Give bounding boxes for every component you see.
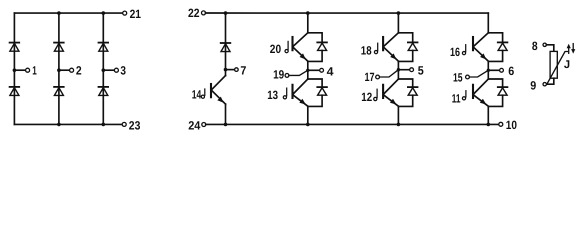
label terminal 23 — [129, 118, 141, 132]
label terminal 2 — [76, 63, 82, 77]
wire phase W leg top — [487, 13, 489, 33]
svg-text:20: 20 — [270, 42, 282, 56]
terminal 9 (thermistor) — [543, 83, 546, 86]
svg-text:22: 22 — [188, 6, 200, 20]
terminal 11 (gate T6) — [462, 91, 466, 100]
svg-text:21: 21 — [130, 7, 142, 21]
junction top rail / phase leg V — [397, 11, 401, 15]
transistor T7 (brake IGBT) — [211, 76, 226, 105]
label terminal 16 — [450, 45, 460, 59]
diode D7 (brake) — [221, 43, 231, 52]
label J (theta) — [564, 59, 570, 71]
terminal 24 (inverter DC-) — [202, 123, 206, 127]
terminal 18 (gate T2) — [374, 43, 377, 54]
label terminal 5 — [418, 63, 424, 77]
terminal 20 (gate T1) — [285, 41, 288, 52]
wire inverter top rail (node 22) — [205, 12, 488, 14]
label terminal 22 — [188, 6, 200, 20]
terminal 12 (gate T5) — [374, 89, 377, 100]
wire diode branch lower corner (phase U bottom) — [308, 95, 322, 106]
transistor T1 (phase U top IGBT) — [293, 33, 308, 61]
diode D8 (phase U top freewheel) — [317, 42, 327, 50]
svg-text:9: 9 — [530, 79, 536, 93]
terminal 2 (AC input) — [57, 68, 73, 72]
label terminal 7 — [240, 63, 246, 77]
transistor T3 (phase W top IGBT) — [473, 33, 488, 61]
terminal 22 (inverter DC+) — [202, 11, 206, 15]
label terminal 9 — [530, 79, 536, 93]
wire thermistor top — [546, 45, 554, 52]
terminal 17 (aux emitter) — [376, 75, 380, 79]
junction top rail / leg 3 — [102, 11, 106, 15]
label terminal 12 — [361, 90, 372, 104]
terminal 13 (gate T4) — [283, 88, 286, 99]
svg-text:15: 15 — [453, 71, 463, 85]
junction top rail / leg 2 — [57, 11, 61, 15]
wire inverter bottom rail (node 24/10) — [206, 123, 499, 125]
wire aux emitter 19 — [289, 70, 308, 75]
label terminal 8 — [532, 39, 538, 53]
wire phase U leg bottom — [307, 106, 309, 124]
svg-text:13: 13 — [267, 88, 278, 102]
wire diode branch upper corner (phase W top) — [488, 33, 502, 43]
svg-text:23: 23 — [129, 118, 141, 132]
wire diode branch upper corner (phase W bottom) — [488, 79, 502, 87]
svg-text:5: 5 — [418, 63, 424, 77]
svg-text:2: 2 — [76, 63, 82, 77]
svg-text:7: 7 — [240, 63, 246, 77]
wire phase U leg top — [307, 13, 309, 33]
terminal 8 (thermistor) — [543, 43, 546, 46]
wire phase V leg bottom — [397, 106, 399, 124]
terminal 21 (rectifier DC+) — [123, 11, 127, 15]
wire aux emitter 17 — [380, 70, 399, 77]
wire diode branch lower corner (phase U top) — [308, 50, 322, 61]
diode D6 (rectifier bottom, leg 3) — [99, 87, 109, 96]
diode D10 (phase W top freewheel) — [498, 42, 508, 50]
node 7 junction — [224, 68, 228, 72]
svg-text:14: 14 — [192, 87, 202, 101]
wire rectifier leg 3 — [102, 13, 104, 124]
label terminal 11 — [452, 92, 461, 106]
terminal 14 (brake gate) — [201, 89, 205, 98]
terminal 3 (AC input) — [102, 68, 119, 72]
terminal 19 (aux emitter) — [285, 74, 289, 78]
svg-text:10: 10 — [506, 118, 517, 132]
junction top rail / brake leg — [224, 11, 228, 15]
junction phase U output — [306, 69, 309, 72]
wire brake leg lower — [225, 104, 227, 124]
svg-text:4: 4 — [327, 65, 334, 79]
wire thermistor bottom — [546, 78, 554, 84]
transistor T5 (phase V bottom IGBT) — [383, 79, 398, 106]
svg-text:24: 24 — [188, 118, 200, 132]
svg-text:16: 16 — [450, 45, 460, 59]
svg-text:11: 11 — [452, 92, 461, 106]
label terminal 6 — [508, 64, 514, 78]
diode D3 (rectifier top, leg 3) — [99, 43, 109, 52]
junction phase W output — [487, 69, 490, 72]
label terminal 20 — [270, 42, 282, 56]
label terminal 24 — [188, 118, 200, 132]
terminal 1 (AC input) — [13, 68, 30, 72]
svg-text:J: J — [564, 59, 570, 71]
diode D13 (phase W bottom freewheel) — [498, 87, 508, 95]
wire brake leg upper — [225, 13, 227, 76]
diode D11 (phase U bottom freewheel) — [317, 87, 327, 95]
svg-text:18: 18 — [361, 44, 372, 58]
terminal 4 (phase U output) — [308, 68, 324, 72]
svg-text:17: 17 — [365, 70, 375, 84]
terminal 6 (phase W output) — [488, 68, 503, 72]
svg-text:19: 19 — [273, 68, 284, 82]
wire rectifier leg 1 — [13, 13, 15, 124]
label terminal 13 — [267, 88, 278, 102]
diode D4 (rectifier bottom, leg 1) — [10, 87, 20, 96]
diode D1 (rectifier top, leg 1) — [10, 43, 20, 52]
terminal 7 (brake collector) — [226, 68, 239, 72]
wire phase W mid — [487, 61, 489, 79]
junction phase V output — [397, 68, 400, 71]
transistor T4 (phase U bottom IGBT) — [293, 79, 308, 106]
junction top rail / phase leg U — [306, 11, 310, 15]
terminal 16 (gate T3) — [462, 45, 465, 55]
label terminal 15 — [453, 71, 463, 85]
junction bottom rail / leg 2 — [57, 123, 61, 127]
terminal 10 (DC- sense) — [499, 122, 503, 126]
label terminal 10 — [506, 118, 517, 132]
wire phase V leg top — [397, 13, 399, 33]
thermistor R1 body — [550, 51, 557, 78]
junction bottom rail / phase leg U — [306, 123, 310, 127]
wire rectifier leg 2 — [58, 13, 60, 124]
svg-text:12: 12 — [361, 90, 372, 104]
diode D2 (rectifier top, leg 2) — [54, 43, 64, 52]
label terminal 14 — [192, 87, 202, 101]
label terminal 19 — [273, 68, 284, 82]
label terminal 17 — [365, 70, 375, 84]
wire diode branch lower corner (phase V bottom) — [398, 95, 412, 106]
wire rectifier bottom rail (node 23) — [14, 123, 122, 125]
label terminal 1 — [32, 63, 37, 77]
svg-text:6: 6 — [508, 64, 514, 78]
label terminal 3 — [120, 63, 126, 77]
wire phase W leg bottom — [487, 106, 489, 124]
transistor T2 (phase V top IGBT) — [383, 33, 398, 61]
diode D12 (phase V bottom freewheel) — [408, 87, 418, 95]
wire diode branch lower corner (phase V top) — [398, 50, 412, 61]
label terminal 4 — [327, 65, 334, 79]
wire diode branch upper corner (phase V top) — [398, 33, 412, 43]
svg-text:8: 8 — [532, 39, 538, 53]
wire diode branch upper corner (phase V bottom) — [398, 79, 412, 87]
wire aux emitter 15 — [469, 70, 488, 77]
wire phase U mid — [307, 61, 309, 79]
terminal 15 (aux emitter) — [466, 75, 470, 79]
diode D5 (rectifier bottom, leg 2) — [54, 87, 64, 96]
wire diode branch upper corner (phase U top) — [308, 33, 322, 43]
terminal 23 (rectifier DC-) — [122, 122, 126, 126]
terminal 5 (phase V output) — [398, 68, 413, 72]
junction bottom rail / brake leg — [224, 123, 228, 127]
wire diode branch lower corner (phase W top) — [488, 50, 502, 61]
wire phase V mid — [397, 61, 399, 79]
svg-text:1: 1 — [32, 63, 37, 77]
transistor T6 (phase W bottom IGBT) — [473, 79, 488, 106]
wire diode branch lower corner (phase W bottom) — [488, 95, 502, 106]
diode D9 (phase V top freewheel) — [408, 42, 418, 50]
wire rectifier top rail (node 21) — [14, 12, 122, 14]
junction bottom rail / phase leg V — [397, 123, 401, 127]
wire diode branch upper corner (phase U bottom) — [308, 79, 322, 87]
junction bottom rail / leg 3 — [102, 123, 106, 127]
junction bottom rail / phase leg W — [487, 123, 491, 127]
thermistor R1 diagonal — [547, 52, 567, 84]
label terminal 18 — [361, 44, 372, 58]
temperature dependence arrows — [567, 44, 576, 54]
svg-text:3: 3 — [120, 63, 126, 77]
label terminal 21 — [130, 7, 142, 21]
